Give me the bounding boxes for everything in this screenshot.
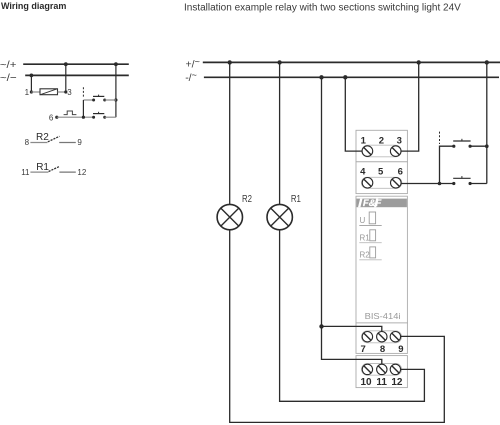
screw terminal 11 bbox=[377, 364, 387, 374]
node: pushbutton bottom row junction bbox=[438, 182, 442, 186]
node: junction plus bus / pin3 wire bbox=[64, 62, 68, 66]
svg-text:5: 5 bbox=[378, 167, 384, 178]
wire: terminal 6 to pushbutton row bbox=[396, 183, 454, 185]
wire: pin3 to plus bus bbox=[65, 64, 67, 92]
contact terminal bbox=[92, 99, 95, 102]
node: plus bus / terminal3 wire bbox=[417, 60, 421, 64]
dashed link line bbox=[82, 87, 84, 98]
svg-text:4: 4 bbox=[360, 167, 366, 178]
wire: contact R1 right bbox=[59, 171, 75, 173]
relay coil bbox=[40, 89, 58, 95]
wire: contact R2 left bbox=[30, 142, 47, 144]
lamp R2 bbox=[217, 204, 242, 229]
dashed link line (right pushbuttons) bbox=[439, 132, 441, 144]
contact terminal bbox=[452, 182, 455, 185]
indicator R2 bbox=[360, 247, 376, 260]
svg-text:BIS-414i: BIS-414i bbox=[365, 311, 401, 321]
slot stadium 1-3 bbox=[362, 145, 401, 157]
svg-text:~/−: ~/− bbox=[0, 72, 17, 84]
svg-text:11: 11 bbox=[376, 377, 387, 388]
wire: minus bus (left) bbox=[25, 74, 129, 76]
node 1 bbox=[30, 90, 33, 93]
wire: top row left segment bbox=[83, 99, 93, 101]
svg-text:8: 8 bbox=[380, 344, 385, 355]
screw terminal 7 bbox=[362, 332, 372, 342]
wire: contact R2 right bbox=[59, 142, 76, 144]
node: plus bus / R1 lamp bbox=[277, 60, 281, 64]
slot stadium 7-9 bbox=[362, 331, 402, 343]
wire: plus bus down to pushbuttons bbox=[486, 62, 488, 183]
F&F logo band bbox=[357, 198, 407, 209]
module body bbox=[356, 196, 407, 323]
terminal block 7-9 bbox=[356, 323, 407, 354]
terminal block 10-12 bbox=[356, 356, 407, 388]
svg-text:Installation example relay wit: Installation example relay with two sect… bbox=[184, 3, 461, 14]
svg-text:6: 6 bbox=[49, 114, 54, 123]
pushbutton bar (right bottom) bbox=[453, 176, 470, 178]
screw terminal 10 bbox=[362, 364, 372, 374]
screw terminal 3 bbox=[390, 146, 401, 157]
contact terminal bbox=[92, 116, 95, 119]
contact terminal bbox=[103, 99, 106, 102]
svg-text:Wiring diagram: Wiring diagram bbox=[1, 1, 66, 11]
svg-text:R2: R2 bbox=[360, 251, 371, 260]
wire: terminal 3 to plus bus bbox=[396, 62, 419, 151]
indicator underline bbox=[359, 242, 381, 244]
node 3 bbox=[64, 90, 67, 93]
screw terminal 1 bbox=[362, 146, 373, 157]
wire: minus bus to terminal 1 bbox=[345, 77, 367, 151]
svg-text:3: 3 bbox=[397, 135, 402, 146]
node: plus bus / pushbutton wire bbox=[485, 60, 489, 64]
svg-text:F&F: F&F bbox=[363, 198, 382, 209]
pushbutton bar (top row) bbox=[93, 95, 104, 97]
svg-text:9: 9 bbox=[77, 138, 82, 147]
screw terminal 12 bbox=[390, 364, 400, 374]
svg-text:R2: R2 bbox=[36, 132, 49, 143]
svg-text:12: 12 bbox=[391, 377, 403, 388]
contact terminal bbox=[103, 116, 106, 119]
node: junction plus bus / contact wire bbox=[114, 62, 118, 66]
switch blade R2 bbox=[48, 136, 60, 142]
node: plus bus / R2 lamp bbox=[228, 60, 232, 64]
indicator R1 bbox=[360, 230, 376, 243]
svg-text:R2: R2 bbox=[242, 194, 252, 205]
svg-text:2: 2 bbox=[379, 135, 384, 146]
switch blade R1 bbox=[49, 166, 60, 171]
wire: contact R1 left bbox=[30, 171, 48, 173]
svg-text:R1: R1 bbox=[36, 162, 49, 173]
wire: minus bus to pin 1 bbox=[30, 75, 32, 92]
svg-text:U: U bbox=[360, 216, 366, 225]
indicator underline bbox=[359, 225, 381, 227]
svg-text:1: 1 bbox=[361, 135, 367, 146]
wire: minus bus (right) bbox=[204, 76, 499, 78]
wire: lamp R1 branch top bbox=[279, 62, 281, 204]
wire: plus bus down right side of contacts bbox=[115, 64, 117, 117]
slot stadium 4-6 bbox=[361, 177, 401, 188]
wire: pin1 to coil bbox=[31, 91, 40, 93]
node 6 bbox=[55, 116, 58, 119]
svg-text:7: 7 bbox=[360, 344, 365, 355]
svg-text:6: 6 bbox=[398, 167, 403, 178]
contact terminal bbox=[469, 145, 472, 148]
wire: pushbutton bottom row right segment bbox=[470, 183, 487, 185]
node: minus bus / terminal 1 wire bbox=[343, 75, 347, 79]
wire: plus bus (right) bbox=[203, 61, 500, 63]
svg-text:11: 11 bbox=[21, 168, 30, 177]
wire: bottom row right segment bbox=[105, 116, 116, 118]
svg-text:12: 12 bbox=[77, 168, 86, 177]
svg-text:9: 9 bbox=[398, 344, 403, 355]
wire: left vertical of contact loop bbox=[82, 100, 84, 117]
node: pushbutton top row junction bbox=[485, 144, 489, 148]
wire: lamp R2 branch top bbox=[229, 62, 231, 204]
slot stadium 10-12 bbox=[362, 364, 402, 376]
node: junction minus bus / pin1 wire bbox=[30, 74, 34, 78]
svg-text:3: 3 bbox=[67, 88, 72, 97]
svg-text:8: 8 bbox=[25, 138, 30, 147]
indicator underline bbox=[359, 259, 381, 261]
screw terminal 8 bbox=[377, 332, 387, 342]
pushbutton bar (right top) bbox=[453, 139, 470, 141]
wire: plus bus (left) bbox=[23, 63, 129, 65]
wire: minus bus down to terminals 8 and 11 bbox=[322, 77, 382, 369]
screw terminal 4 bbox=[362, 178, 373, 189]
svg-text:~/+: ~/+ bbox=[0, 59, 16, 71]
wire: coil to pin3 bbox=[58, 91, 66, 93]
node: junction above terminal 8 bbox=[319, 324, 323, 328]
wire: bottom row from pin 6 bbox=[57, 116, 94, 118]
svg-text:1: 1 bbox=[25, 88, 30, 97]
node: junction bottom row bbox=[82, 116, 85, 119]
pushbutton bar (bottom row) bbox=[93, 112, 104, 114]
wire: pushbutton left vertical and top row left segment bbox=[440, 146, 454, 183]
node: junction top contact row bbox=[114, 98, 117, 101]
svg-text:10: 10 bbox=[360, 377, 372, 388]
indicator U bbox=[360, 212, 376, 225]
screw terminal 6 bbox=[391, 178, 402, 189]
relay module BIS-414i: terminal block 1-3 bbox=[356, 130, 407, 162]
wire: top row right segment bbox=[105, 99, 116, 101]
node: minus bus / terminals 8-11 wire bbox=[319, 75, 323, 79]
wire: lamp R1 to terminal 12 loop bbox=[280, 230, 425, 401]
contact terminal bbox=[469, 182, 472, 185]
terminal block 4-6 bbox=[356, 162, 407, 194]
lamp R1 bbox=[267, 204, 292, 229]
contact terminal bbox=[452, 145, 455, 148]
pulse symbol bbox=[64, 111, 77, 115]
wire: lamp R2 to terminal 9 loop bbox=[230, 230, 445, 423]
screw terminal 9 bbox=[390, 332, 400, 342]
svg-text:R1: R1 bbox=[360, 234, 371, 243]
wire: pushbutton top row right segment bbox=[470, 145, 487, 147]
svg-text:R1: R1 bbox=[291, 194, 301, 205]
